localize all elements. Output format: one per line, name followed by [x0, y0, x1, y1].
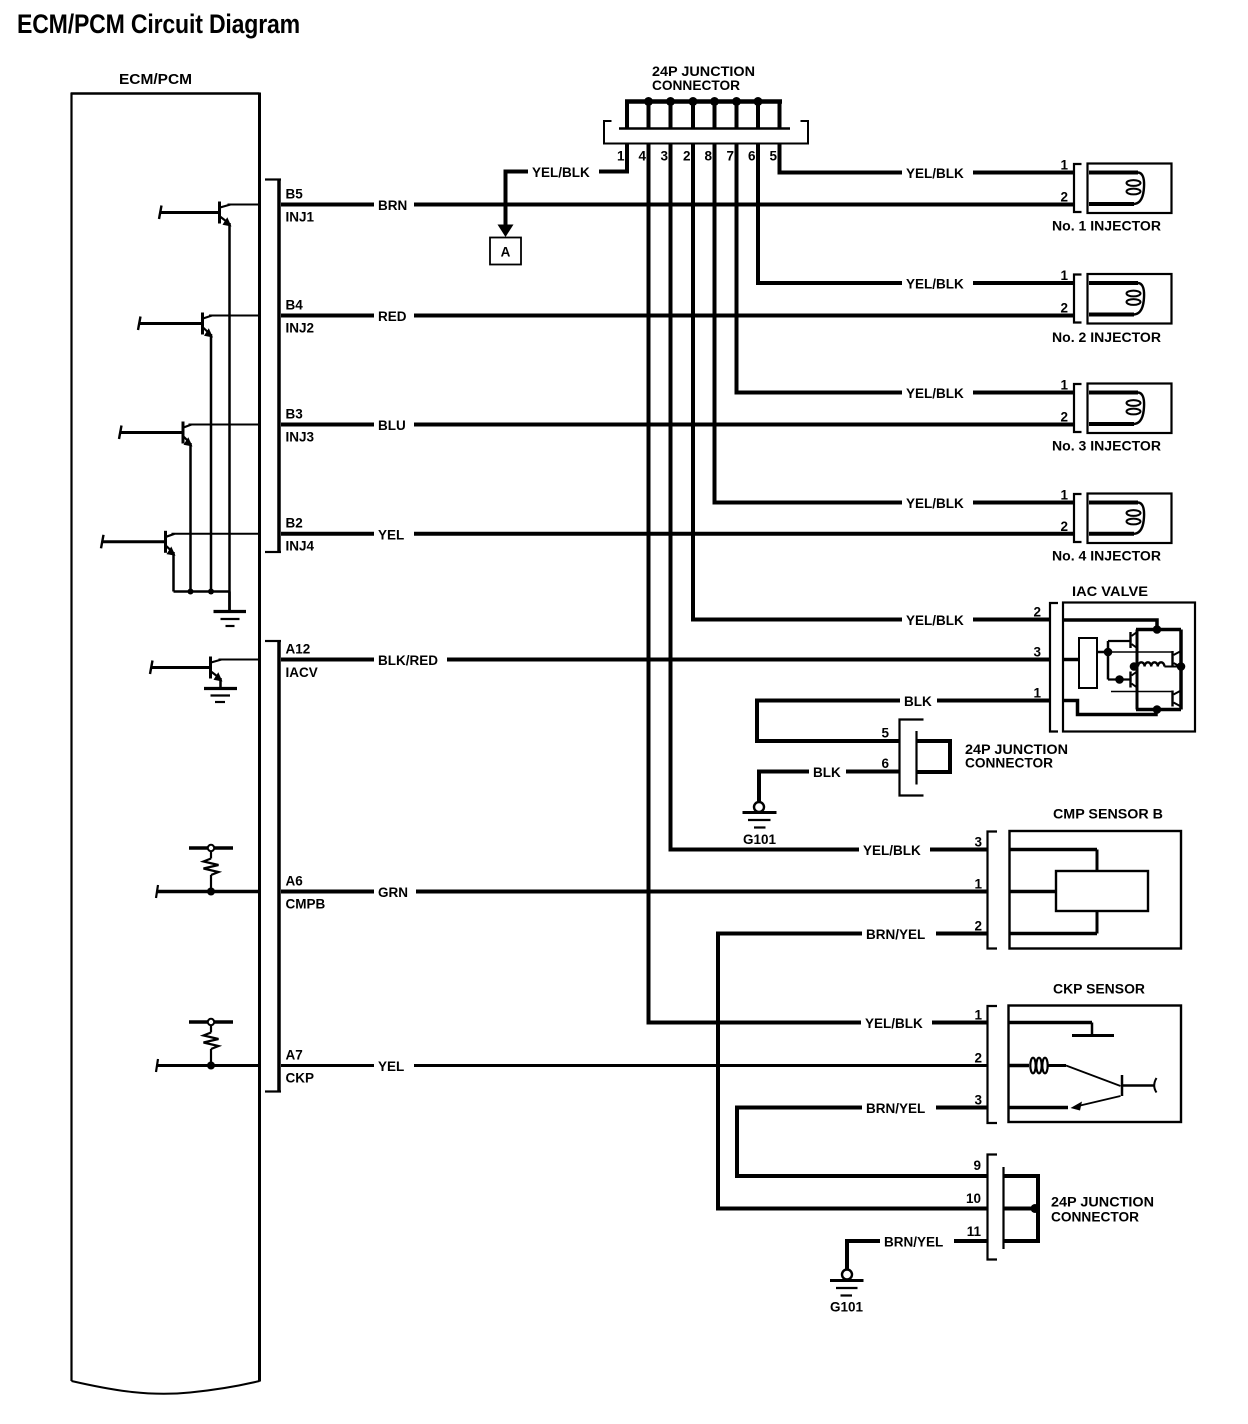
svg-text:BRN/YEL: BRN/YEL	[884, 1235, 943, 1250]
svg-text:1: 1	[1060, 378, 1068, 393]
No. 3 injector	[1088, 384, 1172, 434]
junction: Q3 emitter on bus	[188, 589, 194, 595]
CMP sensor B connector bracket	[988, 832, 998, 949]
svg-text:YEL: YEL	[378, 527, 404, 542]
wire: A12 BLK/RED to IAC valve pin 3	[281, 658, 1050, 662]
24P junction connector J2 bracket	[900, 720, 924, 796]
wire: B3 BLU to No.3 injector pin 2	[281, 423, 1074, 427]
svg-text:9: 9	[973, 1158, 981, 1173]
J1 tooth pin 8	[713, 102, 717, 130]
wire: Q3 emitter drop	[189, 443, 192, 592]
svg-text:2: 2	[1060, 410, 1068, 425]
svg-text:1: 1	[974, 877, 982, 892]
svg-text:ECM/PCM: ECM/PCM	[119, 72, 192, 88]
svg-text:INJ2: INJ2	[286, 321, 315, 336]
svg-text:G101: G101	[743, 832, 777, 847]
svg-text:2: 2	[683, 149, 691, 164]
wire color label YEL/BLK (pin 1)	[528, 164, 599, 180]
wire: J1 pin 5 YEL/BLK to No.1 injector pin 1	[780, 143, 1075, 173]
transistor Q4 (INJ4 driver)	[101, 531, 176, 556]
arrow to reference box A	[498, 225, 514, 238]
wire color label YEL/BLK (No.4 injector)	[902, 495, 973, 511]
transistor Q5 (IACV driver)	[150, 657, 223, 682]
wire: J1 pin 8 YEL/BLK to No.4 injector pin 1	[715, 143, 1075, 503]
wire: bus ground stem	[228, 592, 231, 611]
wire color label YEL/BLK (CMP sensor)	[859, 842, 930, 858]
svg-text:G101: G101	[830, 1300, 864, 1315]
J1 tooth pin 1	[625, 102, 629, 130]
svg-text:INJ3: INJ3	[286, 430, 315, 445]
junction: IAC bottom bar	[1153, 705, 1162, 714]
svg-text:4: 4	[638, 149, 646, 164]
svg-text:B5: B5	[286, 187, 304, 202]
reference box A	[490, 238, 521, 265]
junction: J3 pin 10 on bus	[1031, 1204, 1040, 1213]
svg-text:YEL/BLK: YEL/BLK	[906, 277, 964, 292]
CMP sensor B	[1010, 831, 1182, 949]
svg-text:RED: RED	[378, 309, 407, 324]
No. 4 injector connector bracket	[1074, 494, 1082, 542]
svg-text:YEL/BLK: YEL/BLK	[532, 165, 590, 180]
wire color label BLK (IAC pin 1)	[900, 693, 937, 709]
wire color label YEL/BLK (No.2 injector)	[902, 275, 973, 291]
svg-text:1: 1	[1060, 158, 1068, 173]
wire: Q3 collector stub to pin B3	[189, 424, 260, 426]
resistor R2 (A7 internal pull-up)	[189, 1019, 233, 1066]
J1 tooth pin 7	[735, 102, 739, 130]
ECM connector bracket (A12-A7)	[265, 641, 281, 1092]
svg-text:BLU: BLU	[378, 418, 406, 433]
CKP sensor connector bracket	[988, 1006, 998, 1123]
svg-text:3: 3	[974, 1093, 982, 1108]
wire: Q4 collector stub to pin B2	[172, 533, 260, 535]
J1 connector body	[604, 121, 808, 144]
svg-text:2: 2	[974, 1051, 982, 1066]
wire: A7 YEL to CKP sensor pin 2	[156, 1059, 988, 1072]
wire: G101 BRN/YEL to J3 pin 11	[847, 1241, 988, 1270]
svg-text:No. 2 INJECTOR: No. 2 INJECTOR	[1052, 330, 1161, 345]
svg-text:24P JUNCTION: 24P JUNCTION	[1051, 1195, 1154, 1210]
wire color label BLU	[374, 417, 414, 433]
svg-text:YEL/BLK: YEL/BLK	[906, 613, 964, 628]
24P junction connector J3 bracket	[988, 1155, 1004, 1260]
svg-text:ECM/PCM Circuit Diagram: ECM/PCM Circuit Diagram	[17, 9, 300, 39]
wire: J1 pin 3 YEL/BLK to CMP sensor B pin 3	[671, 143, 988, 850]
svg-text:10: 10	[966, 1191, 981, 1206]
wire color label YEL	[374, 526, 414, 542]
svg-text:2: 2	[1033, 605, 1041, 620]
svg-text:No. 4 INJECTOR: No. 4 INJECTOR	[1052, 549, 1161, 564]
svg-text:No. 1 INJECTOR: No. 1 INJECTOR	[1052, 219, 1161, 234]
svg-text:5: 5	[769, 149, 777, 164]
svg-text:INJ1: INJ1	[286, 210, 315, 225]
svg-text:YEL/BLK: YEL/BLK	[906, 166, 964, 181]
wire: Q4 emitter drop	[172, 552, 175, 592]
No. 3 injector connector bracket	[1074, 384, 1082, 432]
svg-text:CONNECTOR: CONNECTOR	[1051, 1210, 1139, 1225]
wire color label BRN/YEL (CKP sensor)	[862, 1100, 936, 1116]
svg-text:YEL/BLK: YEL/BLK	[865, 1016, 923, 1031]
wire: CMP sensor B pin 2 BRN/YEL to J3 pin 10	[718, 934, 988, 1209]
wire: Q1 emitter drop	[228, 223, 231, 592]
svg-text:B3: B3	[286, 407, 304, 422]
svg-text:CONNECTOR: CONNECTOR	[652, 78, 740, 93]
wire color label YEL/BLK (IAC valve)	[902, 612, 973, 628]
junction: IAC coil right	[1177, 662, 1186, 671]
wire: Q5 emitter drop	[219, 678, 222, 688]
wire color label BRN/YEL (J3 pin 11)	[880, 1233, 954, 1249]
svg-text:CONNECTOR: CONNECTOR	[965, 756, 1053, 771]
wire: Q2 emitter drop	[210, 334, 213, 592]
svg-text:2: 2	[1060, 519, 1068, 534]
svg-text:A12: A12	[286, 642, 311, 657]
svg-text:GRN: GRN	[378, 885, 408, 900]
ground G101 (sensor circuit)	[830, 1270, 864, 1296]
svg-text:BLK: BLK	[904, 694, 932, 709]
ground: IACV driver chassis ground	[204, 689, 237, 703]
wire: J1 pin 7 YEL/BLK to No.3 injector pin 1	[737, 143, 1075, 393]
transistor Q3 (INJ3 driver)	[119, 422, 193, 447]
wire color label YEL/BLK (CKP sensor)	[861, 1015, 932, 1031]
wire: IAC valve pin 1 BLK to J2 pin 5	[757, 701, 1050, 742]
svg-text:A6: A6	[286, 874, 304, 889]
svg-text:7: 7	[726, 149, 734, 164]
svg-text:BRN/YEL: BRN/YEL	[866, 1101, 925, 1116]
svg-text:1: 1	[617, 149, 625, 164]
wire: J1 pin 4 YEL/BLK to CKP sensor pin 1	[649, 143, 988, 1023]
svg-text:B4: B4	[286, 298, 304, 313]
CKP sensor	[1009, 1006, 1182, 1123]
wire: Q5 collector stub to pin A12	[219, 659, 260, 661]
svg-text:6: 6	[748, 149, 756, 164]
svg-text:BRN: BRN	[378, 198, 407, 213]
CKP pickup arrowhead	[1071, 1102, 1083, 1111]
resistor R1 (A6 internal pull-up)	[189, 845, 233, 892]
junction dots on J1 bus bar	[644, 97, 763, 106]
J1 tooth pin 3	[669, 102, 673, 130]
svg-text:A: A	[501, 245, 511, 260]
svg-text:CKP SENSOR: CKP SENSOR	[1053, 982, 1145, 997]
wire color label RED	[374, 308, 414, 324]
wire: G101 BLK to J2 pin 6	[759, 772, 900, 802]
J1 tooth pin 5	[778, 102, 782, 130]
J1 tooth pin 4	[647, 102, 651, 130]
junction: IAC control node upper	[1104, 648, 1113, 657]
svg-text:YEL: YEL	[378, 1059, 404, 1074]
svg-text:BRN/YEL: BRN/YEL	[866, 927, 925, 942]
No. 2 injector connector bracket	[1074, 275, 1082, 323]
junction: IAC control node lower	[1115, 675, 1124, 684]
svg-text:YEL/BLK: YEL/BLK	[906, 386, 964, 401]
wire color label YEL/BLK (No.3 injector)	[902, 385, 973, 401]
No. 2 injector	[1088, 274, 1172, 324]
svg-text:No. 3 INJECTOR: No. 3 INJECTOR	[1052, 439, 1161, 454]
svg-text:IACV: IACV	[286, 665, 318, 680]
24P junction connector J1 bus bar	[625, 99, 782, 104]
svg-text:IAC VALVE: IAC VALVE	[1072, 584, 1148, 599]
IAC valve connector bracket	[1050, 603, 1058, 732]
wire color label BRN/YEL (CMP sensor)	[862, 926, 936, 942]
svg-text:YEL/BLK: YEL/BLK	[863, 843, 921, 858]
J1 tooth pin 2	[691, 102, 695, 130]
IAC valve	[1063, 603, 1195, 732]
wire: emitter ground bus	[174, 590, 230, 593]
transistor Q2 (INJ2 driver)	[138, 313, 213, 338]
svg-text:2: 2	[1060, 190, 1068, 205]
svg-text:2: 2	[974, 919, 982, 934]
junction: Q2 emitter on bus	[208, 589, 214, 595]
svg-text:5: 5	[881, 726, 889, 741]
svg-text:CMPB: CMPB	[286, 897, 326, 912]
wire color label YEL (A7)	[374, 1058, 414, 1074]
J1 tooth pin 6	[756, 102, 760, 130]
wire: Q1 collector stub to pin B5	[228, 204, 260, 206]
junction: R2 on A7 line	[207, 1062, 215, 1070]
wire color label YEL/BLK (No.1 injector)	[902, 165, 973, 181]
svg-text:8: 8	[704, 149, 712, 164]
No. 4 injector	[1088, 494, 1172, 544]
svg-text:A7: A7	[286, 1048, 303, 1063]
svg-text:YEL/BLK: YEL/BLK	[906, 496, 964, 511]
svg-text:3: 3	[1033, 645, 1041, 660]
svg-text:1: 1	[1060, 488, 1068, 503]
No. 1 injector connector bracket	[1074, 164, 1082, 212]
svg-text:3: 3	[974, 835, 982, 850]
svg-text:11: 11	[967, 1224, 982, 1239]
svg-text:BLK: BLK	[813, 765, 841, 780]
J2 shorting bus bar	[917, 741, 951, 772]
svg-text:24P JUNCTION: 24P JUNCTION	[652, 64, 755, 79]
wire: J1 pin 6 YEL/BLK to No.2 injector pin 1	[758, 143, 1074, 283]
junction: R1 on A6 line	[207, 888, 215, 896]
svg-text:CKP: CKP	[286, 1071, 315, 1086]
wire color label BRN	[374, 197, 414, 213]
wire: Q2 collector stub to pin B4	[209, 315, 259, 317]
ground: injector drivers chassis ground	[214, 612, 247, 627]
wire: CKP sensor pin 3 BRN/YEL to J3 pin 9	[737, 1108, 988, 1177]
wire: B2 YEL to No.4 injector pin 2	[281, 532, 1074, 536]
transistor Q1 (INJ1 driver)	[159, 202, 232, 227]
wire: A6 GRN to CMP sensor B pin 1	[156, 885, 988, 898]
ECM/PCM module box	[71, 93, 260, 1394]
wire color label BLK (ground lead)	[809, 764, 846, 780]
svg-text:BLK/RED: BLK/RED	[378, 653, 438, 668]
junction: IAC top bar	[1153, 625, 1162, 634]
ECM connector bracket (B5-B2)	[265, 180, 281, 553]
No. 1 injector	[1088, 164, 1172, 214]
junction: IAC coil left	[1130, 662, 1139, 671]
wire color label BLK/RED	[374, 652, 447, 668]
ground G101 (IAC circuit)	[743, 802, 777, 828]
svg-text:B2: B2	[286, 516, 303, 531]
J3 shorting bus bar	[1004, 1176, 1039, 1241]
svg-text:1: 1	[974, 1008, 982, 1023]
wire color label GRN	[374, 884, 416, 900]
svg-text:3: 3	[660, 149, 668, 164]
wire: B5 BRN to No.1 injector pin 2	[281, 203, 1074, 207]
wire: J1 pin 1 YEL/BLK to reference A	[506, 143, 628, 226]
wire: J1 pin 2 YEL/BLK to IAC valve pin 2	[693, 143, 1050, 620]
svg-text:1: 1	[1033, 686, 1041, 701]
svg-text:1: 1	[1060, 268, 1068, 283]
wire: B4 RED to No.2 injector pin 2	[281, 314, 1074, 318]
svg-text:INJ4: INJ4	[286, 539, 315, 554]
svg-text:2: 2	[1060, 301, 1068, 316]
svg-text:6: 6	[881, 756, 889, 771]
svg-text:CMP SENSOR B: CMP SENSOR B	[1053, 807, 1163, 822]
